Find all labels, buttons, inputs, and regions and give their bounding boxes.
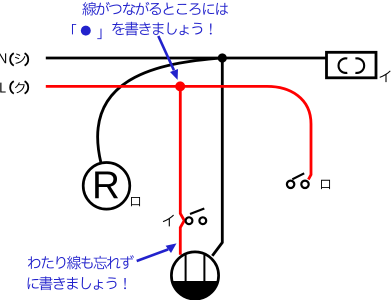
label L close paren bbox=[25, 81, 29, 93]
wire N horizontal bbox=[46, 57, 326, 60]
switch ro right terminal bbox=[301, 181, 308, 188]
node junction on L line bbox=[175, 81, 185, 91]
label N close paren bbox=[25, 53, 29, 65]
receptacle R circle bbox=[83, 163, 130, 210]
switch i lever bbox=[190, 209, 204, 215]
label switch i bbox=[163, 215, 174, 227]
wire black vertical to ceiling light bbox=[212, 58, 222, 256]
arrow to crossover wire bbox=[137, 249, 169, 261]
note line 2 close bracket bbox=[97, 29, 101, 40]
lamp box left paren bbox=[339, 58, 348, 73]
ceiling light inner line left bbox=[185, 253, 187, 281]
switch i left terminal bbox=[186, 217, 193, 224]
switch i right terminal bbox=[199, 217, 206, 224]
switch ro left terminal bbox=[287, 181, 294, 188]
label L ku bbox=[15, 82, 25, 93]
lamp box U1 bbox=[327, 52, 377, 78]
switch ro lever bbox=[292, 173, 304, 179]
wire L horizontal with corner to switch ro bbox=[46, 86, 311, 179]
note line 3 bbox=[28, 255, 134, 269]
wire red vertical with jog at switch i bbox=[180, 86, 184, 254]
ceiling light filled segment bbox=[172, 281, 218, 299]
note line 2 text bbox=[112, 22, 211, 36]
svg-text:R: R bbox=[92, 164, 120, 207]
ceiling light inner line right bbox=[203, 253, 205, 281]
label N shi bbox=[15, 53, 25, 63]
label L bbox=[0, 83, 5, 93]
lamp box right paren bbox=[355, 58, 364, 73]
note line 1 bbox=[82, 2, 228, 16]
label switch ro bbox=[321, 180, 330, 189]
node junction on N line bbox=[218, 53, 227, 62]
ceiling light circle bbox=[171, 252, 218, 299]
label L open paren bbox=[10, 81, 14, 93]
note line 4 bbox=[28, 276, 126, 290]
label receptacle ro bbox=[131, 197, 140, 206]
label lamp i bbox=[380, 70, 391, 82]
wire black curve to receptacle R bbox=[98, 58, 223, 163]
note line 2 open bracket bbox=[72, 24, 76, 34]
arrow to junction dot bbox=[158, 36, 174, 70]
note line 2 dot symbol bbox=[81, 26, 91, 36]
label N open paren bbox=[10, 53, 14, 65]
label N bbox=[0, 53, 6, 63]
